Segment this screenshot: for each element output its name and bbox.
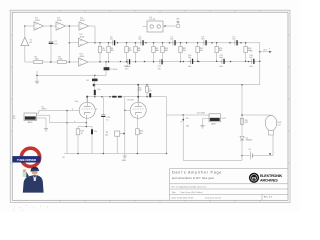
svg-text:1N4001: 1N4001 <box>246 140 253 142</box>
svg-text:4k7: 4k7 <box>245 122 248 124</box>
svg-text:1/2: 1/2 <box>95 109 98 111</box>
capacitor C16 series lower right <box>249 55 256 64</box>
diode D1 <box>240 137 252 142</box>
wire jack tip to switch <box>37 111 39 114</box>
junction R6 bottom <box>108 61 110 63</box>
junction R8 bottom <box>135 61 137 63</box>
junction grid bus 1 <box>94 96 96 98</box>
svg-text:50k: 50k <box>186 126 189 128</box>
junction chain upper <box>186 42 188 44</box>
svg-text:4n7: 4n7 <box>201 39 204 41</box>
svg-text:33n: 33n <box>125 68 128 70</box>
junction R17 wire <box>241 114 243 116</box>
svg-text:10n: 10n <box>170 39 173 41</box>
wire to ground left <box>37 74 106 76</box>
junction chain start <box>94 42 96 44</box>
wire S1 down to bus <box>66 111 68 154</box>
buffer A1 (triangle up) <box>21 37 33 46</box>
resistor R12 shunt <box>196 43 203 62</box>
junction chain upper <box>240 42 242 44</box>
wire IC2B out to chain <box>88 42 95 44</box>
ground mid <box>35 81 39 83</box>
svg-text:ARCHIVES: ARCHIVES <box>260 178 278 182</box>
junction R10 top <box>162 42 164 44</box>
svg-text:8k2: 8k2 <box>129 50 132 52</box>
tube V1b 12AX7 <box>130 102 146 118</box>
svg-text:3n3: 3n3 <box>249 66 252 68</box>
junction chain lower <box>144 61 146 63</box>
svg-text:100k lin: 100k lin <box>124 66 131 68</box>
junction V1a anode <box>86 96 88 98</box>
ground out jack <box>200 126 204 128</box>
junction S1 <box>66 110 68 112</box>
svg-text:Dani's Amplifier Page: Dani's Amplifier Page <box>172 171 222 175</box>
svg-text:10k: 10k <box>105 134 108 136</box>
svg-text:3n3: 3n3 <box>249 57 252 59</box>
frame outer border <box>10 10 290 202</box>
resistor R17 <box>240 118 248 124</box>
Tube Driver roundel <box>13 148 41 166</box>
svg-text:2n2: 2n2 <box>232 39 235 41</box>
wire pot return to battery <box>183 159 242 161</box>
svg-text:Rev: 1.0: Rev: 1.0 <box>264 197 273 199</box>
svg-text:6n8: 6n8 <box>219 57 222 59</box>
resistor R5 shunt <box>98 43 105 62</box>
svg-text:m: m <box>252 176 256 181</box>
svg-text:JACK: JACK <box>211 123 217 126</box>
resistor R15 <box>76 127 84 154</box>
svg-text:8k2: 8k2 <box>138 50 141 52</box>
capacitor C14 series lower right <box>188 55 195 64</box>
capacitor C8 series <box>201 37 208 46</box>
junction R10 bottom <box>162 61 164 63</box>
junction wiper line <box>124 110 126 112</box>
input jack J1 <box>13 113 37 124</box>
svg-text:10n: 10n <box>188 66 191 68</box>
junction R7 bottom <box>126 61 128 63</box>
LED1 <box>265 115 282 135</box>
junction bus 3 <box>137 153 139 155</box>
resistor R16 <box>136 118 143 153</box>
wire lower line seg3 <box>66 61 78 63</box>
junction R12 top <box>197 42 199 44</box>
svg-text:red: red <box>278 123 281 126</box>
svg-text:1k5: 1k5 <box>140 133 143 135</box>
svg-text:100k: 100k <box>58 59 62 61</box>
capacitor C14 electrolytic <box>94 90 96 95</box>
wire K1 to terminal <box>163 25 176 27</box>
svg-text:DPDT: DPDT <box>42 109 48 111</box>
resistor R14 <box>137 85 148 93</box>
connector K1 <box>147 17 163 32</box>
supply arrow <box>269 153 271 155</box>
op-amp U4 IC2B <box>79 34 89 47</box>
svg-text:g: g <box>72 109 73 111</box>
wire ground stub <box>36 71 38 81</box>
junction R5 bottom <box>99 61 101 63</box>
wire V1a cathode <box>85 118 87 126</box>
wire stub to output arrow <box>260 51 270 53</box>
junction chain upper <box>145 42 147 44</box>
wire LED branch <box>241 85 243 137</box>
wire V1a anode <box>86 97 88 103</box>
wire grid bus <box>86 96 167 98</box>
wire cathode split <box>78 126 92 128</box>
wire D1 to battery line <box>241 140 243 156</box>
resistor R10 shunt <box>161 43 168 62</box>
svg-text:6,3: 6,3 <box>13 118 16 120</box>
svg-text:Tube Driver (B.K. Butler): Tube Driver (B.K. Butler) <box>180 191 203 194</box>
wire to IC1A input <box>25 25 34 27</box>
junction chain lower <box>248 61 250 63</box>
wire buffer to lower line <box>24 46 26 62</box>
svg-text:P4: P4 <box>86 80 88 82</box>
junction cathode tap <box>86 122 88 124</box>
svg-text:47k: 47k <box>250 50 253 52</box>
ground jack <box>44 129 48 131</box>
junction bus 1 <box>77 153 79 155</box>
wire bypass to cathode <box>50 122 87 124</box>
wire IC1B out to IC2A <box>66 25 80 27</box>
svg-text:a: a <box>269 48 270 50</box>
wire lower line seg1 <box>25 61 34 63</box>
junction R18 bottom <box>245 61 247 63</box>
junction V1b anode cross <box>137 96 139 98</box>
resistor R11 shunt <box>179 43 186 62</box>
wire lower line seg2 <box>43 61 58 63</box>
svg-text:22u: 22u <box>94 131 97 133</box>
wire R14 to grid bus <box>146 92 148 97</box>
junction R18 top <box>245 42 247 44</box>
node B chain end <box>259 43 261 85</box>
junction volume <box>182 114 184 116</box>
svg-text:6k8: 6k8 <box>156 50 159 52</box>
potentiometer DRIVE label <box>104 67 110 70</box>
junction out tap <box>259 51 261 53</box>
wire to gain label <box>94 75 96 78</box>
svg-text:3k9: 3k9 <box>219 50 222 52</box>
junction grid bus 3 <box>109 96 111 98</box>
svg-text:P1 250k: P1 250k <box>110 69 117 71</box>
junction V1b anode <box>137 84 139 86</box>
resistor R6 shunt <box>107 43 114 62</box>
capacitor C11 series lower <box>158 59 163 70</box>
capacitor C7 series <box>170 37 177 46</box>
output jack J2 <box>209 114 227 126</box>
junction chain upper <box>117 42 119 44</box>
capacitor C15 series lower right <box>219 55 226 64</box>
junction blob gain wiper <box>93 84 95 87</box>
capacitor C9 series <box>232 37 239 46</box>
wire jack sleeve ground <box>203 119 210 126</box>
junction R6 top <box>108 42 110 44</box>
junction R7 top <box>126 42 128 44</box>
wire filter chain upper <box>95 42 260 44</box>
junction lower line <box>69 61 71 63</box>
junction bus 2 <box>103 153 105 155</box>
off-page arrow OUT <box>269 51 271 53</box>
logo black circle m <box>249 173 259 183</box>
wire IC1A out to IC1B <box>44 25 57 27</box>
capacitor C16 dark <box>118 96 122 98</box>
junction chain lower <box>183 61 185 63</box>
svg-text:and schematics of DIY tube gea: and schematics of DIY tube gear <box>172 177 214 180</box>
junction C1 bottom <box>50 61 52 63</box>
svg-text:10k: 10k <box>111 50 114 52</box>
svg-text:Date: 10.03.2002 19:43: Date: 10.03.2002 19:43 <box>172 197 195 200</box>
wire feedback vertical <box>68 26 70 62</box>
svg-text:10u: 10u <box>97 89 100 91</box>
junction K1 out <box>164 25 166 27</box>
junction R14 top <box>146 84 148 86</box>
wire IC2B input <box>69 42 78 44</box>
potentiometer P2 bias <box>105 131 125 154</box>
junction battery minus <box>241 155 243 157</box>
frame tick marks <box>10 10 290 202</box>
wire to LED anode <box>242 114 271 116</box>
wire LED cathode down <box>272 135 274 156</box>
wire V1b anode <box>137 85 139 103</box>
junction R5 top <box>99 42 101 44</box>
capacitor C19 <box>101 97 110 154</box>
potentiometer P3 volume <box>181 115 190 160</box>
svg-text:File: C:/eagle/projects/tube_: File: C:/eagle/projects/tube_driver.sch <box>172 186 208 189</box>
wire IC2A out <box>89 25 96 27</box>
junction R13 bottom <box>216 61 218 63</box>
resistor R9 shunt <box>152 43 159 62</box>
wire jack sleeve to ground <box>37 118 47 129</box>
junction cathode <box>86 126 88 128</box>
wire drive pot down <box>105 70 107 75</box>
svg-text:P3: P3 <box>186 118 188 120</box>
svg-text:ELEKTRONIK: ELEKTRONIK <box>260 174 283 178</box>
junction R13 top <box>216 42 218 44</box>
svg-text:Drawn by: Daniel: Drawn by: Daniel <box>205 197 221 200</box>
op-amp U2 IC1B <box>56 18 66 31</box>
svg-text:k: k <box>74 121 75 123</box>
capacitor C6 series <box>138 37 145 46</box>
resistor R2 <box>58 57 67 64</box>
junction chain upper <box>169 42 171 44</box>
junction feedback mid <box>69 42 71 44</box>
svg-text:TUBE DRIVER: TUBE DRIVER <box>17 158 37 162</box>
capacitor C18 electrolytic <box>91 127 97 154</box>
svg-text:1k: 1k <box>81 133 83 135</box>
capacitor C1 <box>49 26 58 62</box>
wire bottom bus <box>64 153 167 155</box>
battery BT1 <box>242 149 273 159</box>
junction R12 bottom <box>197 61 199 63</box>
junction grid bus 2 <box>101 96 103 98</box>
junction drive top <box>105 61 107 63</box>
junction R8 top <box>135 42 137 44</box>
op-amp U5 IC3A <box>79 54 89 66</box>
tube V1a 12AX7 <box>79 102 95 118</box>
wire gain to cap <box>94 81 96 90</box>
junction grid bus 4 <box>146 96 148 98</box>
capacitor C15 dark <box>112 96 116 98</box>
wire V1b grid <box>125 109 131 111</box>
conductor man figure <box>23 167 44 193</box>
junction gain tap <box>94 75 96 77</box>
resistor R18 shunt <box>244 43 251 62</box>
capacitor C5 series <box>110 37 117 46</box>
svg-text:100k: 100k <box>35 59 39 61</box>
op-amp U1 IC1A <box>34 18 44 31</box>
junction bus end <box>166 153 168 155</box>
junction feedback top <box>69 25 71 27</box>
junction IC1A out <box>50 25 52 27</box>
potentiometer GAIN label <box>92 79 98 82</box>
capacitor C10 series lower <box>125 59 130 70</box>
svg-text:6k8: 6k8 <box>165 50 168 52</box>
wire S1 to tube1 grid <box>39 110 80 112</box>
svg-text:4k7: 4k7 <box>200 50 203 52</box>
svg-text:DC 9V: DC 9V <box>150 19 156 21</box>
junction chain lower <box>120 61 122 63</box>
wire filter chain lower <box>88 60 260 63</box>
terminal X1 <box>176 19 180 28</box>
junction chain2 end <box>259 61 261 63</box>
junction LED branch top <box>241 84 243 86</box>
svg-text:JACK: JACK <box>27 121 33 124</box>
svg-text:22n: 22n <box>138 39 141 41</box>
svg-text:10u: 10u <box>54 43 57 45</box>
svg-text:Title:: Title: <box>172 191 177 194</box>
capacitor C17 dark <box>149 93 151 97</box>
wire wiper vertical <box>124 97 126 154</box>
title block <box>170 169 289 201</box>
junction chain lower <box>198 61 200 63</box>
svg-text:C20 100n: C20 100n <box>197 112 205 114</box>
frame inner border <box>12 12 288 200</box>
wire battery junction drop <box>241 156 243 161</box>
svg-text:6n8: 6n8 <box>220 66 223 68</box>
junction R9 top <box>153 42 155 44</box>
svg-text:1n: 1n <box>106 119 108 121</box>
junction chain upper <box>211 42 213 44</box>
resistor R1 <box>34 57 43 64</box>
svg-text:15n: 15n <box>158 68 161 70</box>
op-amp U3 IC2A <box>79 18 89 31</box>
svg-text:220k: 220k <box>137 90 141 92</box>
wire down to filter chain <box>94 26 96 43</box>
junction chain lower <box>230 61 232 63</box>
junction chain upper <box>229 42 231 44</box>
svg-text:10k: 10k <box>102 50 105 52</box>
wire jack ring <box>37 115 50 122</box>
wire cap to grid line <box>94 95 96 97</box>
ground symbol bus <box>122 154 127 163</box>
resistor R7 shunt <box>125 43 132 62</box>
svg-text:5k6: 5k6 <box>183 50 186 52</box>
resistor R13 shunt <box>215 43 222 62</box>
svg-text:GND: GND <box>122 160 127 162</box>
junction R11 bottom <box>180 61 182 63</box>
svg-text:ECC83: ECC83 <box>128 100 134 102</box>
wire grid bus down <box>166 97 168 154</box>
wire to volume pot and jack <box>167 114 210 116</box>
wire K1 left stub <box>143 26 148 28</box>
svg-text:47n: 47n <box>110 39 113 41</box>
svg-text:10n: 10n <box>188 57 191 59</box>
wire B+ return line <box>93 84 260 86</box>
junction ground stub <box>36 75 38 77</box>
junction R11 top <box>180 42 182 44</box>
wire chain to drive pot <box>105 62 107 67</box>
scan speckles <box>13 205 48 211</box>
resistor R8 shunt <box>134 43 141 62</box>
wire node A to buffer <box>24 26 26 37</box>
junction R9 bottom <box>153 61 155 63</box>
junction bypass <box>66 122 68 124</box>
node A junction <box>24 25 26 27</box>
